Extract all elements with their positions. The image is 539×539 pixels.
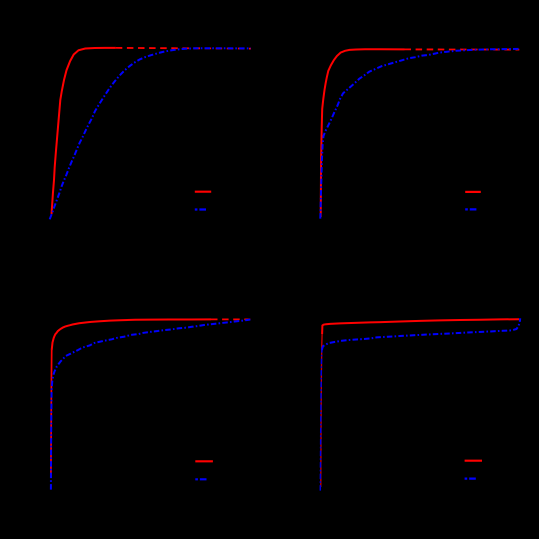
- subplot BR blue dash-dot curve: [322, 318, 520, 350]
- subplot TL blue dash-dot curve: [50, 48, 251, 219]
- subplot BL red dashed asymptote tail: [211, 318, 250, 320]
- subplot BR red curve steep vertical segment: [321, 334, 322, 487]
- subplot BR legend blue handle: [465, 478, 481, 480]
- subplot BR blue curve steep vertical segment: [320, 350, 322, 491]
- subplot BL legend red handle: [195, 460, 213, 462]
- subplot BL legend blue handle: [195, 478, 211, 480]
- subplot BL red solid curve: [52, 319, 211, 350]
- subplot TR red dashed asymptote tail: [405, 48, 520, 50]
- subplot BL red curve steep vertical segment: [50, 350, 53, 478]
- subplot TR legend red handle: [465, 191, 481, 193]
- subplot BL blue dash-dot curve: [51, 320, 250, 490]
- subplot TR red solid curve: [321, 49, 405, 217]
- subplot TL red solid curve: [52, 48, 116, 214]
- subplot TL legend red handle: [195, 191, 211, 193]
- subplot TR legend blue handle: [465, 208, 481, 210]
- subplot BR red solid curve: [322, 319, 519, 334]
- subplot TL legend blue handle: [195, 208, 211, 210]
- subplot BR legend red handle: [465, 460, 482, 462]
- subplot TL red dashed asymptote tail: [116, 47, 251, 50]
- subplot TR blue dash-dot curve: [320, 49, 519, 219]
